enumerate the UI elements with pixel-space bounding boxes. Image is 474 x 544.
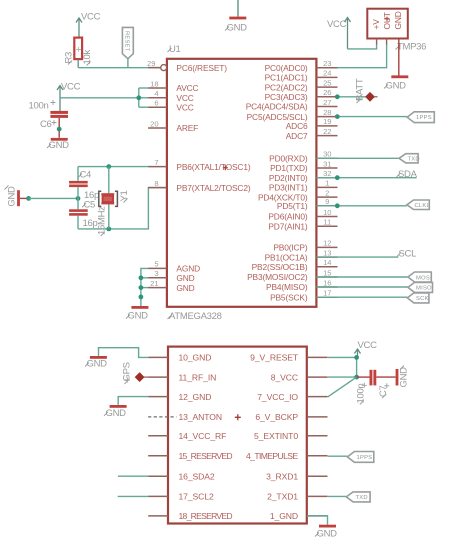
wire R3 to pin 29 <box>78 67 161 69</box>
wire pin 10_GND to ground <box>99 348 149 358</box>
svg-text:VCC: VCC <box>176 102 193 112</box>
svg-text:GND: GND <box>87 359 108 370</box>
pin 20 AREF <box>148 119 198 133</box>
pin 9 PD5(T1) <box>277 197 338 211</box>
svg-text:14: 14 <box>323 258 331 267</box>
svg-text:23: 23 <box>323 59 331 68</box>
svg-text:TXD: TXD <box>408 157 420 163</box>
svg-text:PB6(XTAL1/TOSC1): PB6(XTAL1/TOSC1) <box>176 162 250 172</box>
svg-text:2_TXD1: 2_TXD1 <box>267 492 298 502</box>
svg-text:1PPS: 1PPS <box>357 455 373 461</box>
svg-text:16p: 16p <box>83 218 98 229</box>
pin 13 PB1(OC1A) <box>265 248 338 262</box>
svg-text:PD0(RXD): PD0(RXD) <box>269 154 308 164</box>
net flag MOSI (pin 15) <box>316 272 432 282</box>
pin 9_V_RESET <box>250 353 327 363</box>
svg-text:U1: U1 <box>169 44 181 55</box>
node BATT <box>335 78 378 103</box>
pin 23 PC0(ADC0) <box>265 59 338 73</box>
svg-text:18_RESERVED: 18_RESERVED <box>179 511 233 521</box>
wire crystal top to pin 7 <box>78 166 148 168</box>
svg-text:BATT: BATT <box>354 78 365 101</box>
svg-text:GND: GND <box>386 81 407 92</box>
wire GND to C4/C5 midpoint <box>29 197 78 199</box>
pin 14 PB2(SS/OC1B) <box>252 258 338 272</box>
svg-text:16MHz: 16MHz <box>96 206 107 235</box>
pin 12 PB0(ICP) <box>273 239 337 253</box>
wire pin 17_SCL2 <box>118 495 149 497</box>
svg-text:VCC: VCC <box>81 12 101 23</box>
svg-text:PB0(ICP): PB0(ICP) <box>273 243 308 253</box>
GPS origin cross <box>235 414 241 420</box>
net flag TXD (pin 30) <box>316 154 419 163</box>
svg-text:10k: 10k <box>82 50 93 65</box>
svg-text:14_VCC_RF: 14_VCC_RF <box>179 431 227 441</box>
pin 5_EXTINT0 <box>254 431 328 441</box>
svg-text:15: 15 <box>323 268 331 277</box>
svg-text:20: 20 <box>150 119 158 128</box>
svg-text:MOSI: MOSI <box>416 275 432 281</box>
svg-text:100n: 100n <box>356 384 367 404</box>
svg-text:PC1(ADC1): PC1(ADC1) <box>265 73 308 83</box>
svg-text:ADC6: ADC6 <box>286 121 308 131</box>
svg-text:SDA: SDA <box>398 169 418 180</box>
svg-text:MISO: MISO <box>416 286 432 292</box>
svg-text:15_RESERVED: 15_RESERVED <box>179 451 233 461</box>
svg-text:PD6(AIN0): PD6(AIN0) <box>268 212 307 222</box>
junction GND rail pin 3 <box>139 275 144 280</box>
pin 1_GND <box>270 511 328 521</box>
pin 2_TXD1 <box>267 492 327 502</box>
svg-text:C4: C4 <box>80 170 92 181</box>
svg-text:CLKI: CLKI <box>415 203 429 209</box>
svg-text:PC2(ADC2): PC2(ADC2) <box>265 82 308 92</box>
svg-text:PB1(OC1A): PB1(OC1A) <box>265 252 308 262</box>
junction VCC/C7 <box>354 375 359 380</box>
svg-text:4: 4 <box>154 89 158 98</box>
junction VCC/V_RESET <box>354 355 359 360</box>
svg-text:19: 19 <box>323 117 331 126</box>
svg-text:5_EXTINT0: 5_EXTINT0 <box>254 431 298 441</box>
pin 2 PD4(XCK/T0) <box>258 188 338 202</box>
pin 5 AGND <box>148 260 200 274</box>
svg-text:GND: GND <box>227 23 248 34</box>
pin 15_RESERVED <box>148 451 232 461</box>
svg-text:TMP36: TMP36 <box>397 42 426 53</box>
svg-text:PD2(INT0): PD2(INT0) <box>269 173 308 183</box>
svg-text:7_VCC_IO: 7_VCC_IO <box>257 392 298 402</box>
svg-text:PB7(XTAL2/TOSC2): PB7(XTAL2/TOSC2) <box>176 183 250 193</box>
svg-text:PC4(ADC4/SDA): PC4(ADC4/SDA) <box>246 102 308 112</box>
svg-text:6: 6 <box>154 99 158 108</box>
svg-text:C6: C6 <box>40 119 52 130</box>
wire IC GND pins rail <box>141 268 148 306</box>
node SCL (pin 13) <box>316 248 416 259</box>
svg-text:9: 9 <box>325 197 329 206</box>
pin 13_ANTON <box>148 412 222 422</box>
ground (GPS pin 10) <box>85 356 107 370</box>
net flag 1PPS (TIMEPULSE) <box>328 452 374 463</box>
svg-text:VCC: VCC <box>61 82 81 93</box>
capacitor C4 16p <box>69 167 99 201</box>
svg-text:VCC: VCC <box>327 19 347 30</box>
GPS module U3 body <box>168 347 307 524</box>
svg-text:GND: GND <box>7 186 18 207</box>
svg-text:PB2(SS/OC1B): PB2(SS/OC1B) <box>252 262 308 272</box>
power VCC (GPS supply) <box>355 340 378 357</box>
svg-text:17_SCL2: 17_SCL2 <box>179 492 214 502</box>
svg-text:26: 26 <box>323 88 331 97</box>
pin 24 PC1(ADC1) <box>265 69 338 83</box>
svg-text:VCC: VCC <box>358 340 378 351</box>
junction crystal top <box>106 164 111 169</box>
svg-text:+V: +V <box>371 19 381 30</box>
pin 11 PD7(AIN1) <box>268 218 337 232</box>
pin 4 VCC <box>148 89 194 103</box>
svg-text:1_GND: 1_GND <box>270 511 298 521</box>
pin 29 PC6(/RESET) <box>147 59 227 73</box>
wire IC power bracket <box>139 88 148 107</box>
svg-text:24: 24 <box>323 69 331 78</box>
ground (IC GND pins) <box>126 306 148 322</box>
ground (crystal, rotated) <box>5 186 27 207</box>
junction GND rail lower <box>139 295 144 300</box>
svg-text:17: 17 <box>323 289 331 298</box>
pin 30 PD0(RXD) <box>269 150 337 164</box>
svg-text:11_RF_IN: 11_RF_IN <box>179 372 217 382</box>
svg-text:PB5(SCK): PB5(SCK) <box>270 292 308 302</box>
svg-text:8: 8 <box>154 179 158 188</box>
svg-text:PD3(INT1): PD3(INT1) <box>269 183 308 193</box>
pin 27 PC4(ADC4/SDA) <box>246 98 338 112</box>
pin 17_SCL2 <box>148 492 214 502</box>
ground (TMP36 GND pin) <box>384 39 408 92</box>
power VCC (TMP36 supply) <box>327 18 351 49</box>
pin 14_VCC_RF <box>148 431 226 441</box>
capacitor C7 100n <box>356 370 396 405</box>
svg-text:8_VCC: 8_VCC <box>271 372 298 382</box>
pin 3_RXD1 <box>266 472 327 482</box>
svg-text:9_V_RESET: 9_V_RESET <box>250 353 299 363</box>
svg-text:3: 3 <box>154 269 158 278</box>
pin 8_VCC <box>271 372 328 382</box>
svg-text:GND: GND <box>176 273 194 283</box>
pin 18_RESERVED <box>148 511 232 521</box>
svg-text:AREF: AREF <box>176 123 198 133</box>
svg-text:GND: GND <box>128 311 149 322</box>
power VCC (R3 pull-up supply) <box>76 12 101 38</box>
svg-text:GND: GND <box>317 529 338 540</box>
svg-text:PC3(ADC3): PC3(ADC3) <box>265 92 308 102</box>
svg-text:SCL: SCL <box>399 248 417 259</box>
wire pin 1_GND to ground <box>307 516 328 525</box>
svg-text:21: 21 <box>150 279 158 288</box>
wire TMP36 OUT to pin 23 <box>337 39 386 68</box>
svg-text:18: 18 <box>150 79 158 88</box>
wire crystal bottom to pin 8 <box>78 188 167 229</box>
pin 4_TIMEPULSE <box>246 451 328 461</box>
svg-text:6_V_BCKP: 6_V_BCKP <box>255 412 298 422</box>
svg-text:RESET: RESET <box>123 31 129 52</box>
pin 11_RF_IN <box>148 372 216 382</box>
wire diagonal VCC_IO <box>328 377 357 397</box>
svg-text:28: 28 <box>323 108 331 117</box>
pin 7 PB6(XTAL1/TOSC1) <box>148 158 251 172</box>
svg-text:11: 11 <box>323 218 331 227</box>
pin 22 ADC7 <box>286 127 338 141</box>
svg-text:PD1(TXD): PD1(TXD) <box>270 163 308 173</box>
pin 28 PC5(ADC5/SCL) <box>247 108 338 122</box>
svg-text:10: 10 <box>323 208 331 217</box>
junction C6-GND <box>57 127 62 132</box>
svg-text:22: 22 <box>323 127 331 136</box>
pin 12_GND <box>148 392 211 402</box>
svg-text:C5: C5 <box>84 199 96 210</box>
pin 8 PB7(XTAL2/TOSC2) <box>148 179 251 193</box>
net flag RESET <box>122 27 133 67</box>
svg-text:25: 25 <box>323 78 331 87</box>
ground (C6) <box>47 138 69 151</box>
svg-text:2: 2 <box>325 188 329 197</box>
svg-text:100n: 100n <box>29 101 49 112</box>
svg-text:GND: GND <box>106 408 127 419</box>
svg-text:1PPS: 1PPS <box>416 115 432 121</box>
net flag 1PPS (pin 28) <box>335 112 434 123</box>
crystal Y1 16MHz <box>96 167 130 236</box>
svg-text:R3: R3 <box>64 52 75 64</box>
svg-text:ATMEGA328: ATMEGA328 <box>169 311 222 322</box>
svg-text:12_GND: 12_GND <box>179 392 212 402</box>
svg-text:PB3(MOSI/OC2): PB3(MOSI/OC2) <box>247 272 308 282</box>
pin 17 PB5(SCK) <box>270 289 337 303</box>
svg-text:C7: C7 <box>378 385 389 397</box>
net flag MISO (pin 16) <box>316 282 432 292</box>
pin 10 PD6(AIN0) <box>268 208 337 222</box>
power VCC (C6 / AVCC supply) <box>57 82 81 112</box>
pin 6 VCC <box>148 99 194 113</box>
svg-text:10_GND: 10_GND <box>179 353 212 363</box>
pin 21 GND <box>148 279 195 293</box>
pin 32 PD2(INT0) <box>269 169 338 183</box>
svg-text:5: 5 <box>154 260 158 269</box>
pin 15 PB3(MOSI/OC2) <box>247 268 337 282</box>
wire VCC to TMP36 +V <box>348 39 377 49</box>
svg-text:4_TIMEPULSE: 4_TIMEPULSE <box>246 451 298 461</box>
svg-text:SCK: SCK <box>416 296 429 302</box>
svg-text:3_RXD1: 3_RXD1 <box>266 472 298 482</box>
svg-text:TXD: TXD <box>356 495 368 501</box>
pin 7_VCC_IO <box>257 392 327 402</box>
junction VCC bracket <box>136 95 141 100</box>
svg-text:13_ANTON: 13_ANTON <box>179 412 222 422</box>
wire pin 12_GND to ground <box>118 397 148 405</box>
ground (GPS pin 12) <box>104 405 127 419</box>
wire pin 16_SDA2 <box>118 475 148 477</box>
svg-text:13: 13 <box>323 248 331 257</box>
pin 16_SDA2 <box>148 472 215 482</box>
svg-text:1: 1 <box>325 179 329 188</box>
pin 18 AVCC <box>148 79 198 93</box>
svg-text:Y1: Y1 <box>119 190 130 201</box>
junction C4/C5 midpoint <box>76 196 81 201</box>
svg-text:29: 29 <box>147 59 155 68</box>
sensor U2 TMP36 <box>367 9 426 53</box>
pin 26 PC3(ADC3) <box>265 88 338 102</box>
pin 3 GND <box>148 269 195 283</box>
svg-text:7: 7 <box>154 158 158 167</box>
junction GND-wire <box>26 196 31 201</box>
svg-text:PC0(ADC0): PC0(ADC0) <box>265 63 308 73</box>
ground (GPS pin 1) <box>315 525 337 540</box>
svg-text:PD5(T1): PD5(T1) <box>277 201 308 211</box>
junction crystal bottom <box>106 227 111 232</box>
svg-text:12: 12 <box>323 239 331 248</box>
svg-text:31: 31 <box>323 159 331 168</box>
svg-text:AVCC: AVCC <box>176 83 198 93</box>
svg-text:PB4(MISO): PB4(MISO) <box>266 282 308 292</box>
pin 10_GND <box>148 353 211 363</box>
svg-text:ADC7: ADC7 <box>286 131 308 141</box>
net flag CLKI (pin 9) <box>316 200 429 210</box>
op-amp U1 ATMEGA328 body <box>167 44 317 322</box>
svg-text:32: 32 <box>323 169 331 178</box>
svg-text:PC6(/RESET): PC6(/RESET) <box>176 63 227 73</box>
svg-text:16: 16 <box>323 278 331 287</box>
net flag SCK (pin 17) <box>316 293 429 303</box>
capacitor C6 100n <box>29 100 69 138</box>
svg-text:30: 30 <box>323 150 331 159</box>
node GPS (antenna, pin 11) <box>122 362 149 384</box>
junction GND rail pin 21 <box>139 285 144 290</box>
pin 19 ADC6 <box>286 117 338 131</box>
pin 1 PD3(INT1) <box>269 179 338 193</box>
svg-text:GND: GND <box>176 283 194 293</box>
resistor R3 10k <box>64 38 94 68</box>
capacitor C5 16p <box>69 198 97 229</box>
pin 16 PB4(MISO) <box>266 278 337 292</box>
svg-text:16_SDA2: 16_SDA2 <box>179 472 215 482</box>
pin 31 PD1(TXD) <box>270 159 337 173</box>
ground top-middle <box>225 0 247 34</box>
pin 25 PC2(ADC2) <box>265 78 338 92</box>
pin 6_V_BCKP <box>255 412 327 422</box>
wire V_RESET / VCC rail <box>328 357 357 377</box>
wire VCC rail to IC power pins <box>60 97 139 99</box>
net flag TXD (TXD1) <box>328 492 370 502</box>
svg-text:GND: GND <box>399 367 410 388</box>
node SDA (pin 32) <box>316 169 417 180</box>
svg-text:27: 27 <box>323 98 331 107</box>
svg-text:GND: GND <box>49 140 70 151</box>
svg-text:GND: GND <box>393 11 403 29</box>
ground (C7, rotated) <box>396 366 410 388</box>
wire <box>237 0 239 17</box>
svg-text:PD7(AIN1): PD7(AIN1) <box>268 221 307 231</box>
